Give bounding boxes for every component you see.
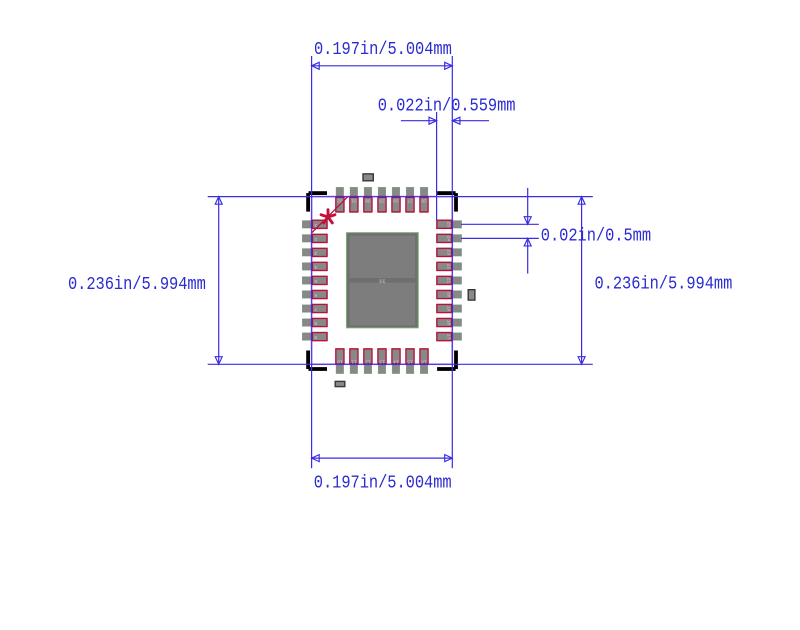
corner bracket top-right: [437, 191, 458, 211]
svg-text:33: 33: [379, 277, 385, 283]
svg-text:31: 31: [351, 197, 357, 203]
pad 22 (right pin 22): [437, 262, 462, 270]
pad 28 (top pin 28): [392, 187, 400, 212]
pad 1 (left pin 1): [302, 220, 327, 228]
pad 2 (left pin 2): [302, 234, 327, 242]
pad 6 (left pin 6): [302, 290, 327, 298]
dimension bottom width 0.197in/5.004mm: [312, 364, 453, 494]
svg-text:20: 20: [446, 292, 452, 298]
pad 15 (bottom pin 15): [406, 349, 414, 374]
pad 27 (top pin 27): [406, 187, 414, 212]
svg-text:17: 17: [446, 334, 452, 340]
svg-text:22: 22: [446, 264, 452, 270]
small marker rectangle bottom: [335, 381, 345, 386]
pad 29 (top pin 29): [378, 187, 386, 212]
pin-1 chamfer line: [312, 197, 348, 233]
svg-text:23: 23: [446, 250, 452, 256]
pad 19 (right pin 19): [437, 304, 462, 312]
svg-text:29: 29: [379, 197, 385, 203]
svg-text:19: 19: [446, 306, 452, 312]
svg-text:0.236in/5.994mm: 0.236in/5.994mm: [595, 274, 733, 295]
dimension pad pitch 0.02in/0.5mm: [461, 188, 651, 274]
dimension right height 0.236in/5.994mm: [452, 197, 732, 365]
svg-text:25: 25: [446, 221, 452, 227]
pad 32 (top pin 32): [336, 187, 344, 212]
svg-text:7: 7: [314, 306, 317, 312]
pad 14 (bottom pin 14): [392, 349, 400, 374]
thermal pad 33 (exposed pad): [347, 233, 419, 328]
svg-text:3: 3: [314, 250, 317, 256]
pad 23 (right pin 23): [437, 248, 462, 256]
svg-text:5: 5: [314, 278, 317, 284]
dimension top width 0.197in/5.004mm: [312, 40, 453, 197]
corner bracket bottom-left: [306, 351, 327, 371]
pad 10 (bottom pin 10): [336, 349, 344, 374]
svg-text:21: 21: [446, 278, 452, 284]
pad 24 (right pin 24): [437, 234, 462, 242]
pad 7 (left pin 7): [302, 304, 327, 312]
svg-text:26: 26: [421, 197, 427, 203]
svg-text:6: 6: [314, 292, 317, 298]
corner bracket top-left: [306, 191, 327, 211]
pad 20 (right pin 20): [437, 290, 462, 298]
pad 26 (top pin 26): [420, 187, 428, 212]
svg-text:24: 24: [446, 236, 452, 242]
pad 17 (right pin 17): [437, 333, 462, 341]
pad 31 (top pin 31): [350, 187, 358, 212]
pin-1 marker asterisk: [321, 210, 335, 223]
pad 9 (left pin 9): [302, 333, 327, 341]
svg-text:0.197in/5.004mm: 0.197in/5.004mm: [314, 474, 452, 495]
pad 8 (left pin 8): [302, 318, 327, 326]
svg-text:4: 4: [314, 264, 317, 270]
svg-text:8: 8: [314, 320, 317, 326]
svg-text:18: 18: [446, 320, 452, 326]
small marker rectangle top: [363, 174, 373, 181]
pad 11 (bottom pin 11): [350, 349, 358, 374]
svg-text:0.197in/5.004mm: 0.197in/5.004mm: [314, 40, 452, 61]
svg-text:30: 30: [365, 197, 371, 203]
package body outline: [312, 197, 453, 365]
pad 13 (bottom pin 13): [378, 349, 386, 374]
svg-text:9: 9: [314, 334, 317, 340]
svg-text:27: 27: [407, 197, 413, 203]
pad 21 (right pin 21): [437, 276, 462, 284]
svg-text:0.236in/5.994mm: 0.236in/5.994mm: [68, 275, 206, 296]
pad 12 (bottom pin 12): [364, 349, 372, 374]
dimension left height 0.236in/5.994mm: [68, 197, 312, 365]
svg-text:28: 28: [393, 197, 399, 203]
pad 16 (bottom pin 16): [420, 349, 428, 374]
svg-text:2: 2: [314, 236, 317, 242]
corner bracket bottom-right: [437, 351, 458, 371]
pad 25 (right pin 25): [437, 220, 462, 228]
svg-text:0.02in/0.5mm: 0.02in/0.5mm: [541, 226, 651, 247]
pad 30 (top pin 30): [364, 187, 372, 212]
pad 5 (left pin 5): [302, 276, 327, 284]
pad 4 (left pin 4): [302, 262, 327, 270]
dimension pad length 0.022in/0.559mm: [378, 96, 516, 220]
small marker rectangle right: [468, 290, 475, 300]
pad 3 (left pin 3): [302, 248, 327, 256]
svg-text:0.022in/0.559mm: 0.022in/0.559mm: [378, 96, 516, 117]
pad 18 (right pin 18): [437, 318, 462, 326]
